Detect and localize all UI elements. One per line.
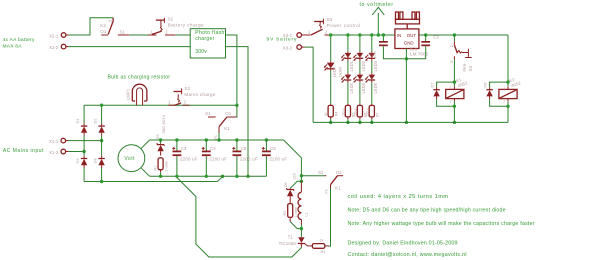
svg-text:C6: C6 — [270, 146, 276, 151]
connector X3-1 — [283, 33, 305, 38]
svg-text:150 e: 150 e — [353, 108, 357, 117]
relay contact K1 pole 2 (S2,O2,P2) — [318, 170, 343, 194]
svg-text:Note: Any higher wattage type: Note: Any higher wattage type bulb will … — [348, 221, 535, 227]
diode D4 — [92, 156, 104, 168]
svg-text:LED1: LED1 — [349, 60, 354, 71]
diode D7 — [429, 82, 454, 107]
connector X2-2 — [49, 44, 69, 50]
junction charger minus to cap bus — [246, 175, 249, 178]
photo flash charger module — [190, 29, 225, 58]
wire R7 to ground bus — [370, 119, 373, 124]
svg-text:Contact: daniel@solcon.nl, www: Contact: daniel@solcon.nl, www.megavolts… — [348, 252, 467, 258]
svg-text:2200 uF: 2200 uF — [240, 157, 258, 162]
resistor R5 — [341, 104, 355, 119]
heatsink for IC1 — [396, 12, 420, 29]
svg-text:Fire: Fire — [462, 63, 467, 71]
wire K2 contact to S1 — [129, 34, 148, 36]
diode D3 — [75, 156, 87, 168]
meter Volt — [118, 140, 150, 176]
svg-text:X1-2: X1-2 — [49, 150, 59, 155]
wire C2 to gnd node — [406, 46, 425, 59]
svg-text:Designed by: Daniel Eindhoven: Designed by: Daniel Eindhoven 01-05-2009 — [348, 240, 458, 246]
svg-text:K2: K2 — [100, 23, 106, 28]
diode D8 — [482, 82, 508, 107]
svg-text:P1: P1 — [109, 19, 113, 23]
LED5 — [353, 73, 366, 93]
svg-text:1k: 1k — [320, 238, 324, 242]
svg-text:2: 2 — [503, 100, 505, 104]
wire to contact S2 lead — [301, 175, 324, 177]
svg-text:Note: D5 and D6 can be any tip: Note: D5 and D6 can be any tipe high spe… — [348, 207, 506, 213]
svg-text:D8: D8 — [482, 82, 487, 88]
svg-text:S2: S2 — [318, 170, 324, 175]
wire LED1 to LED4 — [347, 61, 349, 73]
LED6 — [365, 73, 378, 93]
svg-text:2200 uF: 2200 uF — [180, 157, 198, 162]
svg-text:charger: charger — [195, 36, 214, 42]
svg-text:D3: D3 — [75, 158, 80, 164]
svg-text:LED3: LED3 — [373, 60, 378, 71]
wire capacitor bottom bus — [150, 175, 267, 177]
relay coil K1 — [446, 77, 469, 104]
svg-text:X3-1: X3-1 — [283, 33, 293, 38]
svg-text:L1: L1 — [304, 212, 308, 216]
svg-text:coil used: 4 layers x 25 turns: coil used: 4 layers x 25 turns 1mm — [348, 194, 449, 200]
wire R5 to ground bus — [346, 119, 349, 124]
resistor R1 — [154, 158, 169, 178]
wire X3-2 to ground bus — [305, 47, 314, 122]
thyristor T1 TIC106S — [279, 235, 308, 248]
diode D5 — [156, 134, 165, 155]
svg-text:OUT: OUT — [407, 33, 417, 38]
svg-text:T1: T1 — [288, 235, 294, 240]
svg-text:1: 1 — [450, 86, 452, 90]
node 4x AA battery annotation — [3, 37, 36, 50]
resistor R4 — [324, 104, 338, 119]
wire bus corner to K2 coil — [506, 35, 509, 87]
svg-text:150 e: 150 e — [365, 108, 369, 117]
capacitor C3 — [172, 138, 198, 178]
capacitor C4 — [202, 138, 228, 178]
LED column 4 : junction — [370, 33, 373, 51]
svg-text:C4: C4 — [210, 146, 216, 151]
svg-text:2200 uF: 2200 uF — [209, 157, 227, 162]
wire cap bus to fire section — [284, 140, 303, 183]
svg-text:D2: D2 — [92, 118, 97, 124]
wire X1-1 to bridge column 2 — [69, 139, 104, 142]
LED column 2 : junction — [346, 33, 349, 51]
svg-text:P1: P1 — [214, 135, 218, 139]
svg-text:LED6: LED6 — [373, 82, 378, 93]
svg-text:R4: R4 — [334, 112, 338, 116]
svg-text:LED7: LED7 — [332, 66, 337, 77]
wire bridge column 2 mid — [101, 136, 103, 156]
svg-text:S3: S3 — [327, 17, 333, 22]
resistor R3 — [307, 238, 329, 254]
connector X1-2 — [49, 149, 69, 155]
resistor R2 — [283, 204, 298, 222]
wire LED3 to LED6 — [371, 61, 373, 73]
capacitor C1 — [369, 33, 388, 58]
svg-text:P2: P2 — [325, 189, 329, 193]
wire LED7 to R4 — [330, 71, 332, 104]
svg-text:LMP1: LMP1 — [125, 88, 130, 100]
connector X3-2 — [283, 45, 305, 51]
svg-text:O2: O2 — [336, 170, 342, 175]
relay contact K1 pole 1 (S1,O1,P1) — [205, 111, 236, 139]
wire contact pole 2 to R3 — [329, 189, 331, 247]
wire L1 to T1 anode — [300, 225, 303, 238]
svg-text:R1: R1 — [154, 166, 158, 171]
svg-text:AC Mains input: AC Mains input — [3, 148, 44, 154]
wire LED column 1 — [329, 33, 332, 61]
svg-text:Bulb as charging resistor: Bulb as charging resistor — [108, 74, 171, 80]
svg-text:Battery charge: Battery charge — [168, 23, 204, 28]
svg-text:D7: D7 — [429, 82, 434, 88]
svg-text:D1: D1 — [75, 118, 80, 124]
svg-text:MAX 8A: MAX 8A — [3, 44, 23, 50]
wire contact pole to cap bus — [217, 133, 220, 142]
wire R2 to junction — [290, 222, 301, 229]
wire R6 to ground bus — [358, 119, 361, 124]
wire LED2 to LED5 — [359, 61, 361, 73]
wire main charge line — [84, 104, 239, 107]
svg-text:X2-2: X2-2 — [49, 45, 59, 50]
wire bridge bottom rail — [84, 168, 224, 183]
relay coil K2 — [499, 77, 522, 104]
svg-text:GND: GND — [404, 41, 414, 46]
relay contact K2 (pins P1,O1,S1) — [100, 18, 129, 35]
svg-text:S1: S1 — [205, 111, 211, 116]
svg-text:Laser: Laser — [337, 66, 342, 77]
capacitor C5 — [232, 138, 258, 178]
switch S2 Mains charge — [168, 86, 216, 105]
wire charger line corner to contact O1 — [236, 105, 238, 117]
switch S3 Power control — [305, 17, 361, 35]
wire K2 coil to ground bus — [506, 101, 509, 122]
svg-text:C5: C5 — [241, 146, 247, 151]
capacitor C2 — [421, 33, 439, 46]
svg-text:X1-1: X1-1 — [49, 139, 59, 144]
svg-text:TIC106S: TIC106S — [279, 241, 297, 246]
switch S4 Fire — [449, 33, 473, 71]
svg-text:220: 220 — [292, 173, 296, 179]
wire IC1 GND pin to ground bus — [405, 49, 408, 125]
svg-text:S4: S4 — [468, 65, 473, 71]
wire discharge return loop — [177, 178, 302, 258]
wire S4 to K1 coil — [453, 59, 456, 87]
capacitor C6 — [262, 138, 288, 176]
LED2 — [353, 51, 366, 71]
svg-text:D6: D6 — [284, 182, 288, 187]
svg-text:4x AA battery: 4x AA battery — [3, 37, 36, 43]
inductor L1 — [298, 181, 308, 224]
svg-text:2: 2 — [450, 100, 452, 104]
svg-text:LED2: LED2 — [361, 60, 366, 71]
wire X1-2 to bridge column 1 — [69, 150, 86, 153]
svg-text:R3: R3 — [321, 250, 326, 254]
svg-text:C2: C2 — [433, 35, 439, 40]
svg-text:SKD 56/14: SKD 56/14 — [162, 115, 166, 133]
svg-text:100n: 100n — [373, 51, 377, 59]
svg-text:X3-2: X3-2 — [283, 45, 293, 50]
svg-text:5k: 5k — [324, 112, 328, 116]
resistor R7 — [365, 104, 379, 119]
wire IC1 OUT to bus — [419, 34, 508, 36]
lamp LMP1 — [125, 84, 147, 105]
wire bridge column 1 mid — [83, 136, 85, 156]
LED1 — [341, 51, 354, 71]
wire X2-1 to K2 contact pole — [69, 18, 114, 35]
svg-text:9V battery: 9V battery — [267, 36, 298, 42]
svg-text:Volt: Volt — [124, 156, 135, 162]
wire LED6 to R7 — [371, 83, 373, 104]
svg-text:1 ohm: 1 ohm — [164, 161, 168, 172]
LED column 3 : junction — [358, 33, 361, 51]
LED4 — [341, 73, 354, 93]
svg-text:LED5: LED5 — [361, 82, 366, 93]
svg-text:150 e: 150 e — [341, 108, 345, 117]
svg-text:to voltmeter: to voltmeter — [360, 2, 394, 8]
svg-text:S1: S1 — [168, 17, 174, 22]
diode D2 — [92, 105, 104, 135]
wire C1 to gnd node — [383, 46, 406, 59]
diode D1 — [75, 105, 87, 135]
svg-text:K1: K1 — [335, 185, 341, 190]
svg-text:2200 uF: 2200 uF — [270, 157, 288, 162]
wire main 5V bus — [331, 34, 395, 36]
svg-text:IN: IN — [397, 33, 401, 38]
wire charger minus output — [226, 47, 249, 177]
svg-text:LED4: LED4 — [349, 82, 354, 93]
connector X2-1 — [49, 33, 69, 39]
LED7 laser diode — [324, 61, 342, 77]
svg-text:O1: O1 — [100, 29, 106, 34]
svg-text:1: 1 — [503, 86, 505, 90]
svg-text:O1: O1 — [225, 111, 231, 116]
svg-text:Mains charge: Mains charge — [184, 92, 215, 97]
wire charger plus output — [226, 35, 237, 105]
svg-text:K1: K1 — [224, 126, 230, 131]
svg-text:R2: R2 — [283, 211, 287, 216]
wire R4 to ground bus — [329, 119, 332, 124]
svg-text:D4: D4 — [92, 158, 97, 164]
switch S1 Battery charge — [148, 17, 204, 35]
connector X1-1 — [49, 138, 69, 144]
resistor R6 — [353, 104, 367, 119]
svg-text:300v: 300v — [195, 49, 207, 55]
svg-text:R7: R7 — [375, 113, 379, 117]
svg-text:D5: D5 — [156, 134, 160, 139]
svg-text:Power control: Power control — [327, 23, 361, 28]
wire S1 to charger — [175, 34, 190, 36]
LED3 — [365, 51, 378, 71]
wire LED5 to R6 — [359, 83, 361, 104]
svg-text:C3: C3 — [181, 146, 187, 151]
wire ground bus — [313, 121, 508, 123]
svg-text:X2-1: X2-1 — [49, 34, 59, 39]
wire X2-2 to charger — [69, 46, 191, 48]
wire capacitor top bus — [150, 139, 284, 141]
wire LED4 to R5 — [347, 83, 349, 104]
wire K1 coil to ground bus — [453, 101, 456, 124]
diode D6 — [284, 181, 302, 203]
node to voltmeter supply arrow — [360, 2, 394, 37]
svg-text:S1: S1 — [120, 29, 126, 34]
op-amp U1 : voltage regulator IC1 LM7805 — [395, 29, 429, 57]
svg-text:S2: S2 — [184, 86, 190, 91]
